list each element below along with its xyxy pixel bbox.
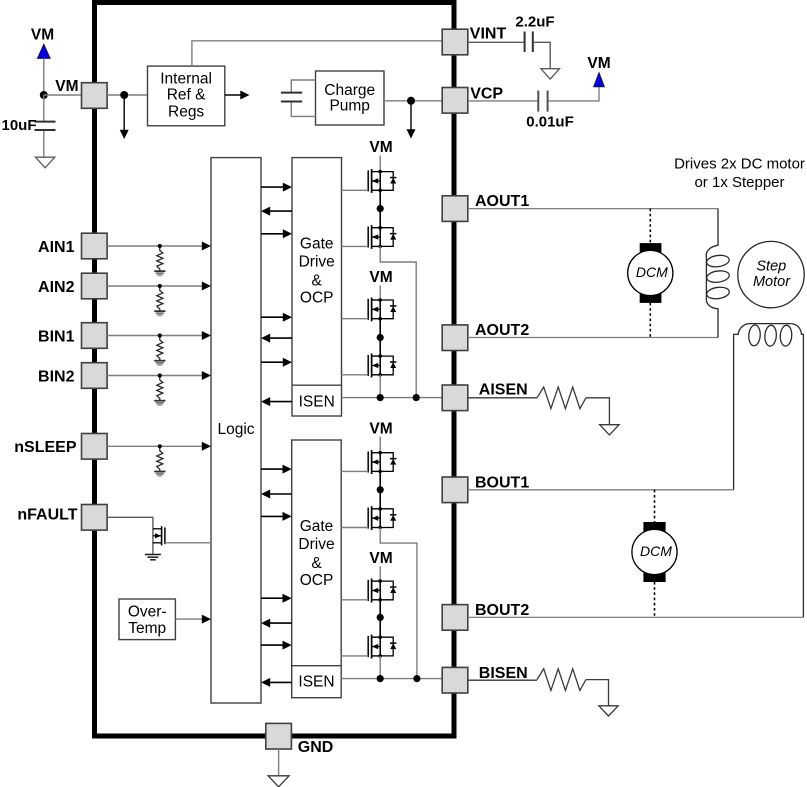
wire BOUT1 external <box>468 489 734 491</box>
transistor B1 low-side <box>368 506 396 530</box>
arrow Logic to GateDriveB 2 <box>261 512 292 521</box>
pin GND <box>266 723 292 749</box>
wire Charge Pump to VCP <box>384 100 442 102</box>
capacitor (charge pump flying cap) <box>281 80 316 116</box>
wire AISEN to resistor <box>468 397 537 399</box>
label BOUT2 <box>475 602 529 619</box>
node AISEN junction 1 <box>377 394 384 401</box>
motor DCM (A) <box>628 243 673 303</box>
block Charge Pump <box>316 71 385 125</box>
ground (2.2uF) <box>541 69 560 79</box>
svg-text:ISEN: ISEN <box>298 673 334 690</box>
wire VM to pin <box>44 94 82 96</box>
transistor A1 low-side <box>368 225 396 249</box>
VM supply label (A high-side 2) <box>369 269 392 300</box>
wire DC motor A bottom (dashed) <box>649 303 651 338</box>
label AIN2 <box>38 279 75 296</box>
VM supply symbol (top-left) <box>31 26 54 95</box>
wire DC motor B bottom (dashed) <box>654 582 656 617</box>
arrow Over-Temp to Logic <box>175 615 211 624</box>
wire gate A1 low-side <box>342 245 369 247</box>
svg-text:DCM: DCM <box>636 264 668 280</box>
ground (AISEN) <box>600 425 619 435</box>
svg-text:Ref &: Ref & <box>167 87 206 104</box>
transistor A1 high-side <box>368 169 396 193</box>
VM supply label (B high-side 1) <box>369 420 392 452</box>
wire A2 to node AOUT2 <box>379 319 381 356</box>
svg-text:10uF: 10uF <box>1 117 36 134</box>
transistor A2 high-side <box>368 297 396 321</box>
node BISEN junction 1 <box>377 675 384 682</box>
arrow ISEN B to Logic <box>261 678 292 687</box>
wire gate B2 high-side <box>341 599 368 601</box>
wire AOUT1 external <box>468 208 718 210</box>
label VM (pin) <box>55 78 78 95</box>
svg-text:Internal: Internal <box>160 70 212 87</box>
label BOUT1 <box>475 474 529 491</box>
arrow Logic to GateDriveA 4 <box>261 358 292 367</box>
label AOUT1 <box>475 193 529 210</box>
VM supply symbol (VCP) <box>587 55 610 87</box>
svg-text:Over-: Over- <box>128 604 167 621</box>
label VCP <box>470 85 503 102</box>
wire AIN2 to Logic <box>107 282 211 291</box>
label BISEN <box>479 665 528 682</box>
pin BIN2 <box>82 363 108 389</box>
block Internal Ref & Regs <box>148 66 225 126</box>
svg-text:VM: VM <box>587 55 610 72</box>
svg-text:Drive: Drive <box>298 536 334 553</box>
node VCP internal <box>407 97 415 105</box>
block Logic <box>211 158 261 703</box>
svg-text:0.01uF: 0.01uF <box>526 114 574 131</box>
svg-text:VM: VM <box>369 139 392 156</box>
wire VINT external <box>468 41 524 43</box>
motor driver IC package outline <box>95 3 455 737</box>
wire BIN2 to Logic <box>107 371 211 380</box>
node AOUT1 <box>377 205 384 212</box>
svg-text:2.2uF: 2.2uF <box>515 13 554 30</box>
wire AOUT2 external <box>468 337 718 339</box>
svg-text:Temp: Temp <box>128 620 166 637</box>
arrow Logic to GateDriveB 4 <box>261 641 292 650</box>
arrow Logic to GateDriveA 1 <box>261 183 292 192</box>
wire AIN1 to Logic <box>107 242 211 251</box>
label GND <box>298 739 334 756</box>
svg-text:AIN1: AIN1 <box>38 239 75 256</box>
wire nFAULT to transistor <box>107 517 153 529</box>
svg-text:Regs: Regs <box>168 104 204 121</box>
arrow Logic to GateDriveB 3 <box>261 594 292 603</box>
wire BOUT2 external <box>468 616 803 618</box>
internal load arrow (VCP) <box>407 101 416 139</box>
node BOUT2 <box>377 614 384 621</box>
wire gate A1 high-side <box>342 189 369 191</box>
svg-text:BIN1: BIN1 <box>38 328 75 345</box>
note Drives 2x DC motor or 1x Stepper <box>674 155 805 191</box>
wire DC motor A top (dashed) <box>649 209 651 244</box>
svg-text:BIN2: BIN2 <box>38 368 75 385</box>
svg-text:BOUT2: BOUT2 <box>475 602 529 619</box>
svg-text:BISEN: BISEN <box>479 665 528 682</box>
transistor B1 high-side <box>368 450 396 474</box>
capacitor 0.01uF <box>526 87 599 131</box>
wire VM pin to internal node <box>107 94 147 96</box>
label nSLEEP <box>14 439 77 456</box>
wire ISEN B to BISEN pin <box>341 678 442 680</box>
arrow Logic to GateDriveB 1 <box>261 465 292 474</box>
arrow Logic to GateDriveA 3 <box>261 313 292 322</box>
svg-text:VINT: VINT <box>470 25 507 42</box>
wire gate B1 low-side <box>341 527 368 529</box>
svg-text:Gate: Gate <box>300 235 334 252</box>
wire gate B2 low-side <box>341 655 368 657</box>
svg-text:VM: VM <box>369 550 392 567</box>
resistor pulldown BIN2 <box>154 373 165 404</box>
pin AISEN <box>442 385 468 411</box>
node BISEN junction 2 <box>413 675 420 682</box>
pin AOUT1 <box>442 196 468 222</box>
ground (nFAULT transistor) <box>145 555 161 560</box>
svg-text:AIN2: AIN2 <box>38 279 75 296</box>
arrow GateDriveA to Logic 2 <box>261 334 292 343</box>
pin AIN1 <box>82 233 108 259</box>
block ISEN (A) <box>292 385 342 410</box>
resistor pulldown AIN1 <box>154 244 165 275</box>
node AOUT2 <box>377 334 384 341</box>
svg-text:VM: VM <box>369 420 392 437</box>
wire BISEN to resistor <box>468 679 537 681</box>
label nFAULT <box>17 507 77 524</box>
pin BOUT1 <box>442 477 468 503</box>
internal load arrow (VM) <box>120 95 129 139</box>
wire DC motor B top (dashed) <box>654 490 656 522</box>
wire resistor to ground (AISEN) <box>586 398 609 425</box>
wire VCP external <box>468 100 537 102</box>
block Gate Drive & OCP (B) <box>292 440 342 698</box>
ground (BISEN) <box>599 706 618 716</box>
ground (10uF) <box>35 157 54 168</box>
svg-text:Drives 2x DC motor: Drives 2x DC motor <box>674 155 805 172</box>
svg-text:&: & <box>311 555 322 572</box>
wire B2 to node BOUT2 <box>379 600 381 637</box>
pin BOUT2 <box>442 605 468 631</box>
svg-text:Motor: Motor <box>753 274 791 290</box>
motor Step Motor <box>738 241 804 307</box>
transistor A2 low-side <box>368 354 396 378</box>
pin AIN2 <box>82 273 108 299</box>
pin VCP <box>442 88 468 114</box>
wire gate B1 high-side <box>341 470 368 472</box>
wire gate A2 high-side <box>342 318 369 320</box>
arrow ISEN A to Logic <box>261 397 292 406</box>
node VM (external) <box>40 91 48 99</box>
label AIN1 <box>38 239 75 256</box>
transistor open-drain (nFAULT) <box>153 526 165 554</box>
wire ISEN A to AISEN pin <box>342 397 443 399</box>
wire GND to ground <box>278 749 280 776</box>
wire B1 low-side source to BISEN net <box>380 528 417 679</box>
svg-text:VM: VM <box>31 26 54 43</box>
wire A1 to node AOUT1 <box>379 190 381 227</box>
svg-text:Charge: Charge <box>324 82 375 99</box>
block Gate Drive & OCP (A) <box>292 158 342 416</box>
transistor B2 high-side <box>368 579 396 603</box>
label AISEN <box>479 382 528 399</box>
wire B2 low-side source to BISEN net <box>379 656 381 679</box>
pin nSLEEP <box>82 434 108 460</box>
resistor AISEN sense <box>537 387 586 409</box>
wire A1 low-side source to AISEN net <box>380 246 416 397</box>
wire A2 low-side source to AISEN net <box>379 375 381 398</box>
svg-text:DCM: DCM <box>640 543 672 559</box>
wire resistor to ground (BISEN) <box>586 680 609 706</box>
inductor stepper winding A <box>706 209 730 338</box>
ground (GND) <box>268 776 289 787</box>
transistor B2 low-side <box>368 635 396 659</box>
resistor pulldown nSLEEP <box>154 444 165 475</box>
label BIN1 <box>38 328 75 345</box>
resistor pulldown AIN2 <box>154 284 165 315</box>
arrow GateDriveB to Logic 2 <box>261 619 292 628</box>
wire Internal Ref to VINT <box>192 41 442 66</box>
wire transistor gate to Logic <box>165 542 211 544</box>
node VM internal <box>120 91 128 99</box>
arrow GateDriveB to Logic 1 <box>261 490 292 499</box>
wire B1 to node BOUT1 <box>379 471 381 508</box>
svg-text:VM: VM <box>55 78 78 95</box>
pin BISEN <box>442 667 468 693</box>
svg-text:OCP: OCP <box>300 290 334 307</box>
pin VM <box>82 83 108 109</box>
block ISEN (B) <box>292 666 342 691</box>
arrow Internal Ref output <box>225 91 250 100</box>
svg-text:nSLEEP: nSLEEP <box>14 439 77 456</box>
svg-text:AOUT2: AOUT2 <box>475 322 529 339</box>
svg-text:nFAULT: nFAULT <box>17 507 77 524</box>
svg-text:Pump: Pump <box>329 98 370 115</box>
node AISEN junction 2 <box>413 394 420 401</box>
node BOUT1 <box>377 486 384 493</box>
resistor pulldown BIN1 <box>154 333 165 364</box>
pin VINT <box>442 29 468 55</box>
svg-text:Drive: Drive <box>299 254 335 271</box>
block Over-Temp <box>119 599 175 640</box>
arrow Logic to GateDriveA 2 <box>261 229 292 238</box>
label BIN2 <box>38 368 75 385</box>
svg-text:VM: VM <box>369 269 392 286</box>
svg-text:ISEN: ISEN <box>299 393 335 410</box>
label AOUT2 <box>475 322 529 339</box>
svg-text:or 1x Stepper: or 1x Stepper <box>694 174 784 191</box>
motor DCM (B) <box>632 522 677 582</box>
VM supply label (A high-side 1) <box>369 139 392 172</box>
wire BIN1 to Logic <box>107 331 211 340</box>
resistor BISEN sense <box>537 669 586 691</box>
pin BIN1 <box>82 323 108 349</box>
inductor stepper winding B <box>734 324 804 618</box>
capacitor 10uF <box>1 95 55 157</box>
arrow GateDriveA to Logic 1 <box>261 207 292 216</box>
svg-text:Step: Step <box>756 259 786 275</box>
wire gate A2 low-side <box>342 374 369 376</box>
VM supply label (B high-side 2) <box>369 550 392 581</box>
svg-text:OCP: OCP <box>300 572 334 589</box>
svg-text:AISEN: AISEN <box>479 382 528 399</box>
label VINT <box>470 25 507 42</box>
pin nFAULT <box>82 505 108 531</box>
wire nSLEEP to Logic <box>107 442 211 451</box>
svg-text:AOUT1: AOUT1 <box>475 193 529 210</box>
svg-text:VCP: VCP <box>470 85 503 102</box>
svg-text:BOUT1: BOUT1 <box>475 474 529 491</box>
svg-text:Gate: Gate <box>300 518 334 535</box>
svg-text:&: & <box>312 273 323 290</box>
pin AOUT2 <box>442 325 468 351</box>
svg-text:GND: GND <box>298 739 334 756</box>
capacitor 2.2uF <box>515 13 554 68</box>
svg-text:Logic: Logic <box>217 421 254 438</box>
